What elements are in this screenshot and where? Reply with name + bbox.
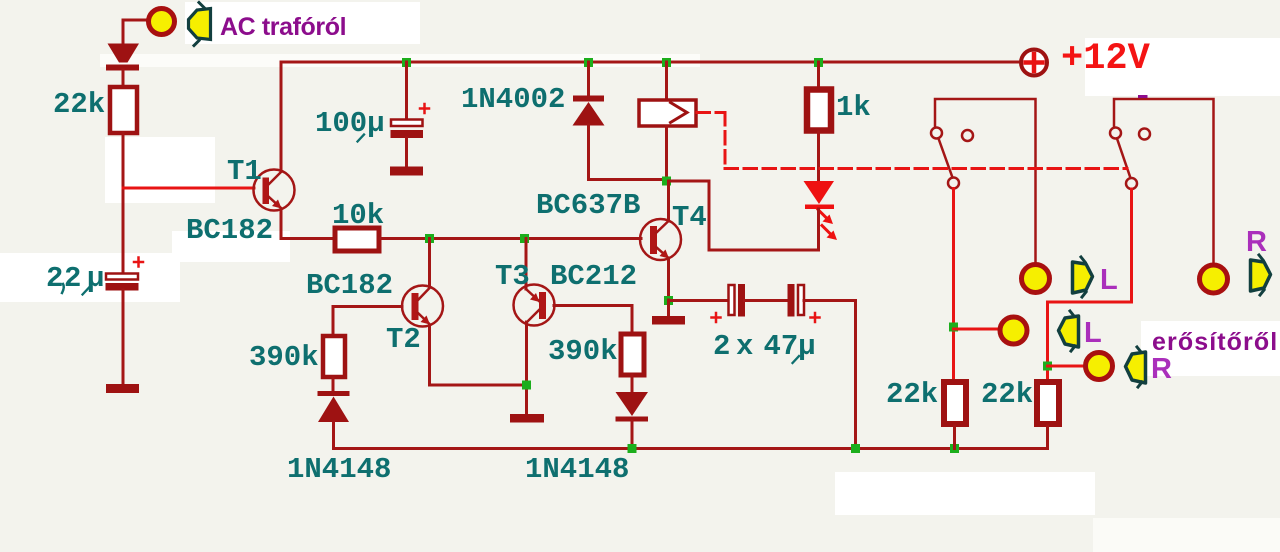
- switch S2 pole contact: [1126, 178, 1137, 189]
- switch S2 contact A: [1110, 128, 1121, 139]
- wire T4 collector: [667, 181, 670, 221]
- svg-text:AC trafóról: AC trafóról: [220, 13, 346, 41]
- switch S1 pole contact: [948, 178, 959, 189]
- junction T2/T3 emitters: [522, 381, 531, 390]
- relay K1 coil: [639, 100, 696, 126]
- wire caps to bottom rail: [804, 301, 856, 449]
- wire T3 base side to 390k right: [554, 306, 632, 334]
- wire T2 base to 390k: [333, 307, 402, 336]
- white patches: [185, 2, 420, 44]
- wire junction to amp L connector: [954, 328, 1001, 331]
- switch S2 bracket: [1114, 99, 1214, 264]
- svg-text:22k: 22k: [981, 378, 1033, 411]
- svg-text:µ: µ: [87, 262, 104, 295]
- capacitor C4 47u (right of pair): [788, 284, 805, 317]
- switch S2 arm: [1117, 139, 1131, 179]
- wire T3 stem from junction: [525, 239, 528, 290]
- junction relay bottom / T4 collector: [662, 177, 671, 186]
- capacitor C2 100u: [405, 62, 408, 119]
- svg-text:22k: 22k: [886, 378, 938, 411]
- connector S2 R output (yellow): [1200, 265, 1228, 293]
- wire T1 collector up: [280, 62, 283, 171]
- svg-text:2: 2: [46, 262, 63, 295]
- connector amp R (yellow): [1086, 353, 1113, 380]
- transistor T2: [402, 286, 443, 327]
- wire T2 emitter to ground junction: [430, 325, 527, 385]
- svg-text:T3: T3: [495, 260, 530, 293]
- ground (100u): [390, 167, 423, 176]
- svg-text:+12V: +12V: [1061, 38, 1151, 80]
- wire +12V top rail: [281, 61, 1020, 64]
- resistor R1 22k (vertical): [110, 87, 137, 133]
- arrow symbol amp L (points left): [1059, 311, 1079, 351]
- junction R out: [1043, 362, 1052, 371]
- wire 1N4002 anode to relay bottom node: [589, 125, 667, 180]
- connector amp L (yellow): [1000, 317, 1027, 344]
- plus sign C2: [420, 104, 429, 113]
- svg-text:2: 2: [713, 330, 730, 363]
- resistor R3 390k: [323, 336, 345, 377]
- svg-text:1N4148: 1N4148: [287, 453, 391, 486]
- arrow symbol L output: [1073, 257, 1093, 297]
- arrow symbol R output: [1251, 255, 1271, 295]
- wire 10k output line to T4 base: [381, 237, 641, 240]
- wire T3 emitter down to ground: [525, 322, 528, 414]
- wire relay coil top: [665, 62, 668, 99]
- svg-text:BC212: BC212: [550, 260, 637, 293]
- wire rail to 1k: [817, 62, 820, 88]
- wire R5 to rail: [953, 426, 956, 449]
- switch S1 bracket: [935, 99, 1036, 263]
- wire junction to amp R connector: [1048, 365, 1086, 368]
- junction on rail (1N4002): [584, 58, 593, 67]
- svg-text:1N4148: 1N4148: [525, 453, 629, 486]
- svg-text:R: R: [1246, 226, 1267, 258]
- diode D4 1N4148 (pointing down): [616, 392, 649, 422]
- svg-text:BC182: BC182: [306, 269, 393, 302]
- diode 1N4002: [587, 62, 590, 95]
- purple tick (artifact): [1140, 95, 1147, 98]
- wire D4 to bottom rail: [631, 421, 634, 449]
- svg-text:x: x: [736, 330, 753, 363]
- junction rail/22k: [950, 444, 959, 453]
- plus sign C1: [134, 258, 143, 267]
- svg-text:T4: T4: [672, 201, 707, 234]
- wire C1 to ground: [122, 290, 125, 384]
- transistor T1: [254, 170, 295, 211]
- switch S1 contact A: [931, 128, 942, 139]
- resistor R6 22k: [1037, 382, 1059, 424]
- svg-text:1N4002: 1N4002: [461, 83, 565, 116]
- diode D1 (series input diode): [106, 44, 139, 71]
- svg-text:T2: T2: [386, 323, 421, 356]
- wire to ground stub: [667, 300, 670, 316]
- wire T1 emitter down to 10k line: [281, 209, 333, 239]
- svg-text:1k: 1k: [836, 91, 871, 124]
- wire T2 collector: [428, 239, 431, 288]
- svg-text:47µ: 47µ: [764, 330, 816, 363]
- wire relay coil bottom: [665, 126, 668, 181]
- resistor R4 390k (right): [621, 334, 644, 375]
- wire S1 pole down to L junction: [952, 189, 955, 381]
- wire LED cathode branch to T4 collector node: [669, 181, 819, 250]
- ground (T4): [652, 316, 685, 325]
- resistor R2 10k (horizontal): [335, 228, 379, 251]
- switch S2 contact B: [1139, 129, 1150, 140]
- junction L out: [949, 323, 958, 332]
- wire 1k to LED: [817, 132, 820, 181]
- svg-text:T1: T1: [227, 155, 262, 188]
- wire 390k to diode D3: [332, 378, 335, 391]
- svg-text:2: 2: [64, 262, 81, 295]
- wire C2 to ground: [405, 138, 408, 166]
- wire from AC connector to diode D1: [123, 20, 148, 44]
- wire 390k to D4: [631, 375, 634, 392]
- switch S1 arm: [939, 139, 953, 178]
- dashed wire relay to switches: [697, 111, 725, 114]
- arrow symbol AC input: [189, 3, 211, 46]
- resistor R5 22k: [944, 382, 966, 424]
- connector AC input (yellow): [149, 9, 175, 35]
- wire T1 base (bright): [123, 187, 254, 190]
- junction on rail (1k): [814, 58, 823, 67]
- junction 10k/T2: [425, 234, 434, 243]
- svg-text:erősítőről: erősítőről: [1152, 328, 1278, 356]
- resistor 1k: [807, 90, 831, 131]
- plus sign C3: [712, 313, 721, 322]
- junction T4 emitter: [664, 296, 673, 305]
- wire between caps: [745, 299, 788, 302]
- svg-text:L: L: [1084, 317, 1102, 349]
- svg-text:BC182: BC182: [186, 214, 273, 247]
- svg-text:390k: 390k: [548, 335, 618, 368]
- ground (T3): [510, 414, 544, 423]
- capacitor C3 47u (left of pair): [729, 284, 746, 317]
- junction rail/D4: [628, 444, 637, 453]
- svg-text:22k: 22k: [53, 88, 105, 121]
- wire diode to R1: [122, 70, 125, 87]
- wire R1 down to node and 2,2u cap: [122, 133, 125, 273]
- svg-text:10k: 10k: [332, 199, 384, 232]
- wire S2 pole down to R junction: [1048, 189, 1132, 380]
- junction rail/caps: [851, 444, 860, 453]
- junction on rail (relay): [662, 58, 671, 67]
- svg-text:100µ: 100µ: [315, 107, 385, 140]
- svg-text:R: R: [1151, 353, 1172, 385]
- diode D3 1N4148 (pointing up): [318, 391, 350, 422]
- transistor T4: [640, 219, 681, 260]
- wire T4 emitter to caps: [669, 299, 728, 302]
- svg-text:BC637B: BC637B: [536, 189, 640, 222]
- +12V supply symbol: [1021, 50, 1047, 76]
- svg-text:390k: 390k: [249, 341, 319, 374]
- arrow symbol amp R (points left): [1126, 347, 1146, 387]
- bottom rail: [334, 447, 1048, 450]
- wire D3 to bottom rail: [332, 422, 335, 449]
- svg-text:L: L: [1100, 264, 1118, 296]
- ground (bottom left): [106, 384, 139, 393]
- wire R6 to rail: [1046, 426, 1049, 449]
- plus sign C4: [811, 313, 820, 322]
- capacitor C1 2,2u polarized: [106, 274, 139, 291]
- junction 10k/T3: [520, 234, 529, 243]
- transistor T3: [514, 285, 555, 326]
- wire T4 emitter down: [667, 258, 670, 300]
- switch S1 contact B: [962, 130, 973, 141]
- LED D2: [804, 181, 838, 240]
- junction on rail (100u): [402, 58, 411, 67]
- connector S1 L output (yellow): [1022, 265, 1050, 293]
